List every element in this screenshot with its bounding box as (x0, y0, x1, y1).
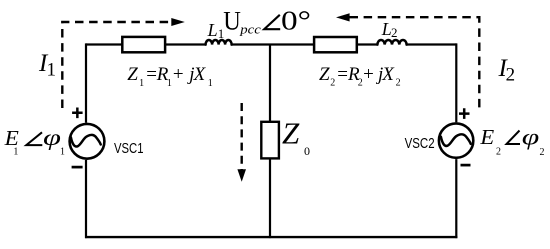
svg-text:Z: Z (282, 115, 300, 150)
svg-text:2: 2 (540, 147, 545, 158)
middle dashed arrow (240, 103, 242, 170)
inductor L1 coil (206, 40, 232, 45)
svg-text:U: U (223, 6, 241, 35)
svg-text:=: = (146, 64, 157, 85)
minus sign VSC1 (72, 166, 83, 169)
svg-text:2: 2 (396, 78, 401, 89)
plus sign VSC1 (72, 108, 83, 119)
svg-text:1: 1 (208, 78, 213, 89)
svg-text:1: 1 (60, 147, 65, 158)
svg-text:L: L (207, 20, 218, 40)
wire middle vertical (269, 45, 271, 239)
current I2 dashed arrow (350, 17, 480, 110)
source VSC2 circle (439, 123, 473, 157)
current I1 dashed arrow (62, 22, 172, 108)
svg-text:Z: Z (127, 64, 138, 85)
svg-text:0°: 0° (281, 6, 311, 36)
source VSC1 circle (70, 124, 105, 159)
wire top (86, 43, 457, 45)
svg-text:+: + (173, 64, 184, 85)
svg-text:+: + (363, 64, 374, 85)
plus sign VSC2 (459, 108, 470, 119)
svg-text:1: 1 (218, 26, 225, 41)
impedance Z0 box (261, 122, 279, 159)
svg-text:pcc: pcc (239, 22, 261, 37)
svg-text:2: 2 (330, 78, 335, 89)
svg-text:1: 1 (13, 147, 18, 158)
svg-text:VSC2: VSC2 (405, 136, 435, 152)
svg-text:VSC1: VSC1 (114, 141, 144, 157)
svg-text:E: E (479, 125, 494, 149)
svg-text:2: 2 (358, 78, 363, 89)
wire right vertical (455, 43, 457, 238)
svg-text:2: 2 (391, 25, 398, 40)
source VSC2 sine (441, 134, 471, 146)
svg-text:=: = (337, 64, 348, 85)
resistor R2 (314, 37, 357, 52)
resistor R1 (122, 37, 165, 52)
svg-text:1: 1 (167, 78, 172, 89)
inductor L2 coil (377, 40, 406, 45)
svg-text:2: 2 (496, 146, 501, 157)
svg-text:X: X (193, 64, 207, 85)
svg-text:2: 2 (506, 64, 515, 85)
svg-text:1: 1 (139, 78, 144, 89)
svg-text:Z: Z (319, 64, 330, 85)
svg-text:φ: φ (43, 125, 61, 150)
svg-text:1: 1 (47, 60, 57, 81)
minus sign VSC2 (461, 164, 471, 167)
svg-text:φ: φ (522, 124, 540, 149)
svg-text:0: 0 (304, 144, 310, 158)
source VSC1 sine (71, 135, 101, 147)
wire left vertical (85, 43, 87, 238)
svg-text:X: X (381, 64, 395, 85)
wire bottom (85, 236, 457, 238)
